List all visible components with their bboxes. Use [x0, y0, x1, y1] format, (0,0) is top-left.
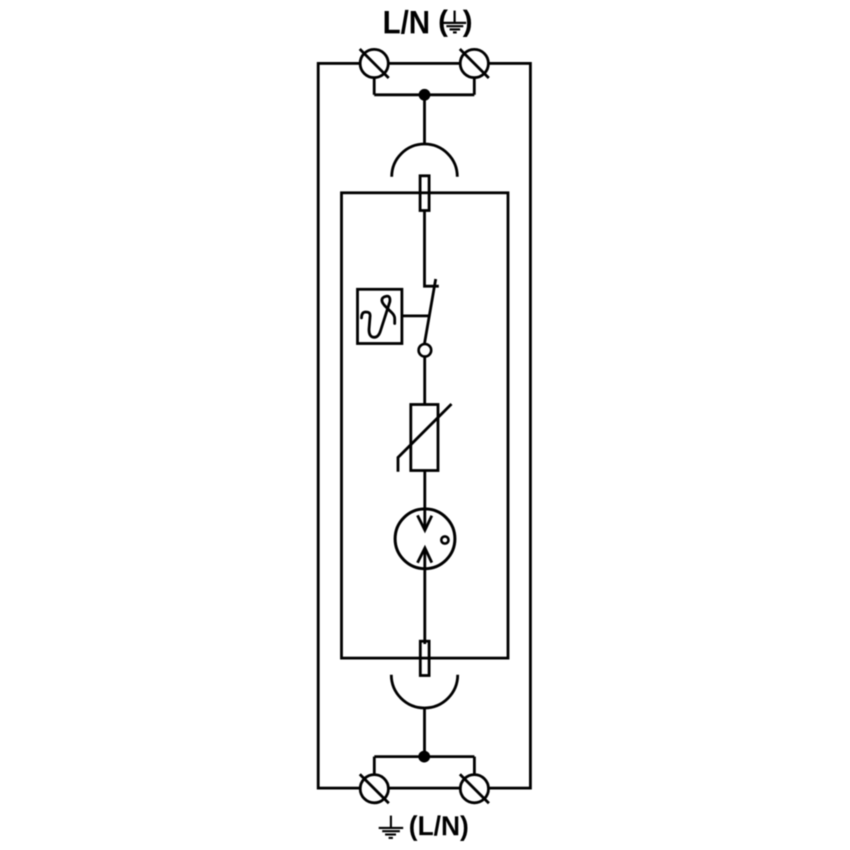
node top junction — [419, 89, 431, 101]
thermal element box — [358, 289, 402, 343]
indicator status dot — [441, 536, 448, 543]
contact pin / fuse link (bottom) — [420, 641, 429, 675]
wire top-left terminal drop — [373, 78, 376, 95]
wire bottom bus bar — [374, 755, 474, 758]
svg-text:(: ( — [438, 5, 448, 38]
svg-text:): ) — [463, 5, 473, 38]
svg-text:(L/N): (L/N) — [409, 810, 469, 841]
svg-text:L/N: L/N — [383, 4, 431, 40]
node bottom junction — [418, 751, 430, 763]
varistor body — [411, 405, 438, 471]
wire varistor to indicator (down-arrow shaft) — [423, 471, 426, 531]
wire pin to switch — [425, 210, 439, 286]
outer enclosure rectangle — [318, 63, 530, 788]
wire top bus bar — [374, 93, 474, 96]
terminal top-right — [460, 49, 488, 77]
indicator up arrowhead — [418, 548, 432, 563]
wire switch to varistor — [423, 357, 426, 405]
inner protection-module box — [342, 193, 509, 658]
terminal top-left — [360, 49, 388, 77]
contact pin / fuse link (top) — [420, 176, 429, 211]
wire bottom-left terminal drop — [373, 757, 376, 775]
plug-in connection arc (top) — [392, 144, 458, 177]
wire bottom-right terminal drop — [473, 757, 476, 775]
varistor diagonal — [398, 404, 452, 472]
wire indicator to bottom pin (up-arrow shaft) — [423, 548, 426, 644]
thermal element theta glyph — [362, 296, 395, 337]
wire thermal box to blade — [402, 314, 430, 317]
surge indicator circle — [395, 509, 455, 569]
wire junction to plug arc — [423, 95, 426, 144]
thermal disconnect switch blade — [424, 279, 435, 345]
plug-in connection arc (bottom) — [391, 675, 457, 708]
switch contact circle — [419, 344, 432, 357]
indicator down arrowhead — [418, 515, 432, 530]
ground symbol (top label) — [443, 11, 466, 33]
terminal bottom-right — [460, 775, 488, 803]
wire arc to bottom junction — [423, 708, 426, 757]
terminal bottom-left — [360, 775, 388, 803]
ground symbol (bottom label) — [379, 816, 404, 838]
wire top-right terminal drop — [473, 78, 476, 95]
